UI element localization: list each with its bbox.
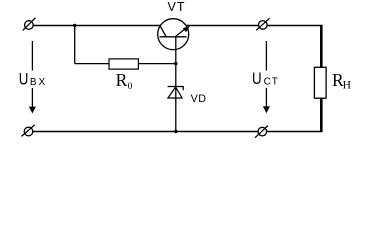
label U_CT: [252, 69, 279, 88]
wire bottom rail: [29, 131, 323, 133]
junction top-left node: [73, 24, 76, 27]
svg-text:BX: BX: [30, 77, 47, 88]
svg-text:0: 0: [128, 82, 133, 92]
wire right vertical (bold): [320, 25, 323, 132]
svg-text:U: U: [19, 69, 29, 88]
arrow U_BX: [18, 41, 45, 114]
transistor VT: [158, 19, 190, 50]
svg-text:CT: CT: [264, 77, 279, 88]
wire base lead vertical: [175, 37, 177, 132]
label U_BX: [19, 69, 47, 88]
wire left branch horizontal to R0: [75, 63, 176, 65]
zener diode VD: [168, 86, 184, 98]
wire left branch vertical: [74, 26, 76, 64]
wire top rail: [29, 25, 323, 27]
label RH: [332, 70, 351, 92]
label R0: [116, 70, 133, 92]
svg-text:VD: VD: [191, 93, 207, 105]
arrow U_CT: [251, 41, 278, 113]
junction bottom node: [174, 130, 177, 133]
resistor R0: [109, 59, 138, 69]
terminal bottom-right: [255, 126, 268, 138]
svg-text:U: U: [252, 69, 262, 88]
svg-text:R: R: [116, 70, 128, 90]
terminal top-right: [256, 18, 269, 30]
svg-text:VT: VT: [168, 0, 186, 14]
terminal bottom-left: [22, 125, 35, 137]
terminal top-left: [23, 18, 36, 31]
svg-text:H: H: [343, 80, 351, 92]
junction base node: [174, 62, 177, 65]
resistor RH: [314, 67, 326, 98]
